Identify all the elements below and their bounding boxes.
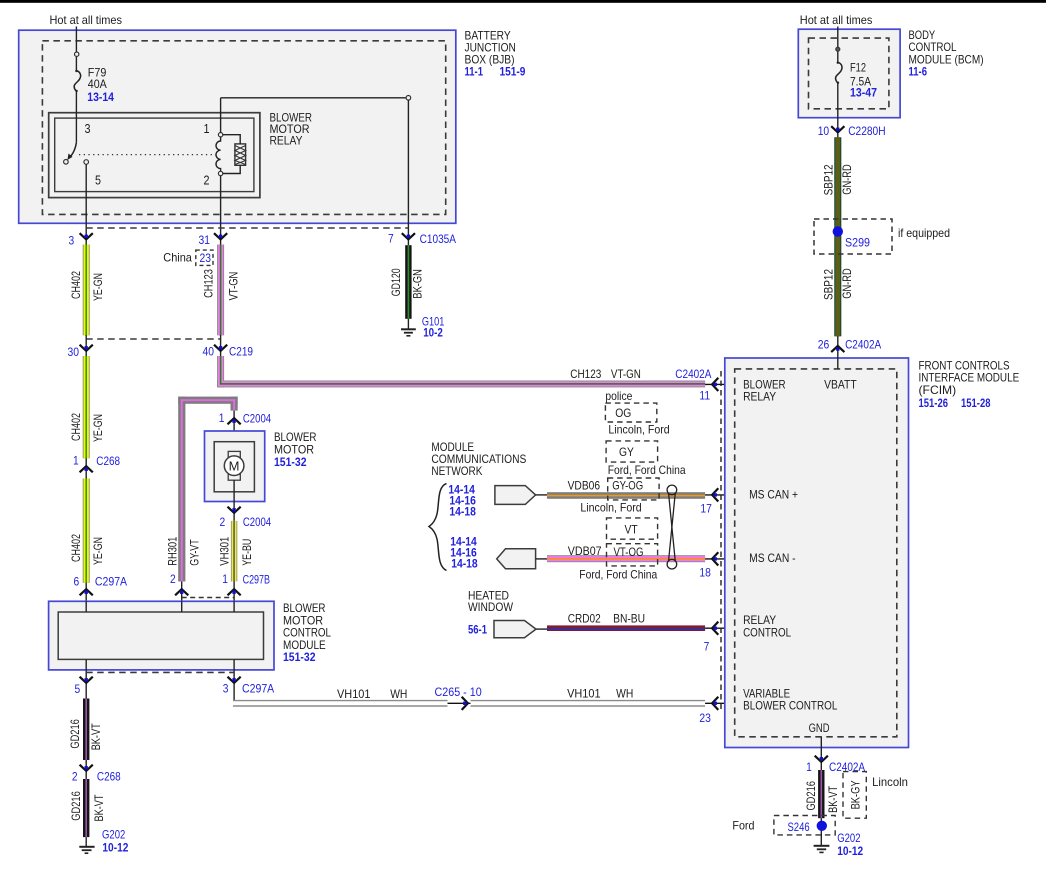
svg-text:C297A: C297A bbox=[95, 575, 127, 589]
network page refs group 1 bbox=[448, 482, 476, 518]
blower motor control module box bbox=[49, 601, 274, 670]
svg-text:SBP12: SBP12 bbox=[822, 164, 836, 195]
connector C2402A pin 26 bbox=[818, 338, 881, 353]
svg-text:C1035A: C1035A bbox=[420, 232, 456, 246]
relay inner box bbox=[55, 118, 254, 192]
connector C268 pin 2 bbox=[72, 765, 121, 784]
svg-text:Ford, Ford China: Ford, Ford China bbox=[608, 463, 686, 477]
wire through C297B pin 1 bbox=[233, 582, 235, 602]
connector C297A pin 6 bbox=[74, 575, 128, 596]
svg-text:GY: GY bbox=[619, 445, 634, 459]
wire bus down to pin 7 bbox=[407, 100, 409, 245]
svg-text:5: 5 bbox=[75, 682, 81, 696]
connector C219 pin 30 bbox=[68, 345, 93, 359]
svg-text:GD120: GD120 bbox=[389, 268, 403, 296]
svg-text:WH: WH bbox=[616, 687, 633, 701]
svg-text:C2004: C2004 bbox=[243, 412, 271, 426]
svg-text:14-18: 14-18 bbox=[449, 504, 476, 518]
fuse F79 40A bbox=[74, 70, 80, 92]
wire CH402 YE-GN segment 2 bbox=[83, 356, 90, 458]
wire stub to ground G101 bbox=[407, 319, 409, 330]
connector C297A dashed boundary (bottom) bbox=[86, 671, 234, 673]
ground G202 right bbox=[814, 846, 830, 853]
wire VDB07 VT-OG bbox=[547, 555, 705, 562]
connector C219 dashed boundary bbox=[86, 338, 220, 340]
svg-text:VH101: VH101 bbox=[337, 687, 371, 701]
wire into FCIM VBATT bbox=[837, 336, 839, 369]
wire through C268 bbox=[85, 458, 87, 478]
svg-text:MS CAN -: MS CAN - bbox=[749, 551, 796, 565]
option box VT-OG bbox=[607, 544, 658, 566]
connector C2004 pin 1 bbox=[219, 411, 272, 426]
svg-text:GD216: GD216 bbox=[804, 781, 818, 811]
wire CH402 YE-GN segment 3 bbox=[83, 479, 90, 583]
svg-text:23: 23 bbox=[200, 251, 212, 265]
svg-text:RH301: RH301 bbox=[166, 536, 180, 565]
connector C2402A dashed boundary line bbox=[720, 371, 722, 712]
wire stub to ground G202 right bbox=[820, 818, 822, 846]
connector C297A pin 5 bbox=[75, 677, 93, 696]
svg-text:C2402A: C2402A bbox=[675, 367, 711, 381]
option box BK-GY Lincoln bbox=[843, 772, 908, 819]
svg-text:BN-BU: BN-BU bbox=[613, 612, 645, 626]
option box VT bbox=[607, 518, 658, 539]
connector C268 pin 1 bbox=[73, 454, 120, 473]
splice S246 box bbox=[732, 816, 835, 835]
wire GD120 BK-GN (BJB pin 7 to G101) bbox=[405, 245, 411, 319]
connector C297B pin 1 bbox=[222, 572, 270, 595]
BCM name label bbox=[909, 28, 984, 79]
blower motor box bbox=[205, 431, 265, 502]
wire coil bottom to resistor bbox=[223, 165, 240, 173]
svg-text:CH402: CH402 bbox=[69, 534, 83, 562]
relay resistor element box bbox=[235, 144, 246, 165]
svg-text:C297B: C297B bbox=[243, 573, 270, 587]
svg-text:GY-OG: GY-OG bbox=[612, 478, 643, 492]
wire through C297B pin 2 bbox=[181, 582, 183, 602]
svg-text:MS CAN +: MS CAN + bbox=[749, 488, 798, 502]
svg-text:C265 - 10: C265 - 10 bbox=[435, 685, 482, 699]
svg-text:151-9: 151-9 bbox=[500, 65, 526, 79]
relay switch contact node bbox=[64, 160, 69, 165]
svg-text:M: M bbox=[229, 458, 240, 473]
fuse F12 7.5A bbox=[836, 62, 842, 84]
svg-text:if equipped: if equipped bbox=[898, 226, 950, 240]
svg-text:10: 10 bbox=[818, 124, 830, 138]
svg-text:151-32: 151-32 bbox=[283, 650, 316, 664]
svg-text:13-47: 13-47 bbox=[850, 86, 877, 100]
connector C2280H pin 10 bbox=[818, 124, 886, 138]
svg-text:VBATT: VBATT bbox=[824, 378, 857, 392]
svg-text:VT-GN: VT-GN bbox=[226, 272, 240, 301]
svg-text:YE-BU: YE-BU bbox=[240, 539, 254, 566]
relay resistor zigzag bbox=[235, 146, 246, 165]
svg-text:C2280H: C2280H bbox=[848, 124, 885, 138]
svg-text:C2004: C2004 bbox=[243, 515, 271, 529]
BMCM inner box bbox=[58, 612, 263, 659]
svg-text:17: 17 bbox=[700, 502, 712, 516]
wire BMCM pin 5 down bbox=[85, 659, 87, 698]
svg-text:WH: WH bbox=[390, 687, 407, 701]
svg-text:C268: C268 bbox=[96, 454, 120, 468]
heated window pentagon connector bbox=[494, 621, 548, 638]
splice S299 box bbox=[814, 219, 892, 254]
connector C2402A pin 7 bbox=[704, 622, 735, 654]
svg-text:GD216: GD216 bbox=[69, 791, 83, 821]
wire relay pin 1 up to feed bbox=[220, 98, 222, 133]
wire through C297A pin 6 bbox=[85, 583, 87, 602]
svg-text:31: 31 bbox=[199, 233, 211, 247]
svg-text:GD216: GD216 bbox=[68, 719, 82, 749]
wire BMCM pin 3 down bbox=[233, 659, 235, 700]
FCIM pin name labels bbox=[743, 378, 857, 736]
wire SBP12 GN-RD bbox=[834, 137, 841, 336]
wire RH301 GY-VT (BMCM pin 2 to motor pin 1) bbox=[178, 397, 238, 582]
connector C297A pin 3 bbox=[223, 677, 274, 696]
svg-text:2: 2 bbox=[220, 515, 226, 529]
svg-text:3: 3 bbox=[85, 122, 91, 136]
svg-text:(FCIM): (FCIM) bbox=[919, 383, 957, 397]
connector C2402A pin 17 bbox=[700, 488, 734, 515]
svg-text:5: 5 bbox=[95, 174, 101, 188]
relay pin 5 node bbox=[84, 160, 89, 165]
svg-text:1: 1 bbox=[73, 454, 79, 468]
svg-text:1: 1 bbox=[806, 760, 812, 774]
wire relay pin 5 down bbox=[85, 164, 87, 245]
svg-text:13-14: 13-14 bbox=[87, 90, 114, 104]
blower motor inner box bbox=[214, 442, 254, 492]
heated window label bbox=[468, 589, 514, 637]
svg-text:10-2: 10-2 bbox=[423, 326, 443, 340]
svg-text:NETWORK: NETWORK bbox=[431, 464, 482, 478]
svg-text:C219: C219 bbox=[229, 345, 253, 359]
svg-text:CH402: CH402 bbox=[69, 271, 83, 299]
svg-text:Ford, Ford China: Ford, Ford China bbox=[579, 567, 657, 581]
connector C2402A pin 18 bbox=[699, 552, 734, 579]
svg-text:G202: G202 bbox=[102, 828, 126, 842]
svg-text:VT-OG: VT-OG bbox=[614, 545, 644, 559]
wire VH101 WH segment 2 bbox=[471, 701, 706, 706]
BCM inner dashed boundary bbox=[809, 38, 889, 109]
wire CRD02 BN-BU bbox=[547, 625, 705, 631]
connector C2402A pin 11 bbox=[675, 367, 734, 403]
svg-text:VH101: VH101 bbox=[567, 687, 601, 701]
svg-text:BK-VT: BK-VT bbox=[826, 785, 840, 813]
svg-text:Lincoln, Ford: Lincoln, Ford bbox=[608, 422, 669, 436]
wire feed bus across BJB bbox=[221, 97, 409, 99]
wire through C219 left bbox=[85, 335, 87, 356]
connector C2004 pin 2 bbox=[220, 507, 272, 529]
svg-text:GY-VT: GY-VT bbox=[188, 539, 202, 566]
wire stub to ground G202 left bbox=[85, 837, 87, 847]
wire through C268 pin 2 bbox=[85, 760, 87, 779]
svg-text:OG: OG bbox=[615, 406, 631, 420]
wire into motor pin 1 bbox=[233, 411, 235, 452]
svg-text:F12: F12 bbox=[850, 61, 866, 75]
relay actuation dotted line bbox=[79, 154, 217, 156]
svg-text:10-12: 10-12 bbox=[837, 844, 863, 858]
wire VH101 WH segment 1 bbox=[233, 701, 448, 706]
connector BJB pin 3 bbox=[69, 233, 93, 247]
wire hot feed into BCM bbox=[837, 27, 839, 63]
svg-text:G202: G202 bbox=[837, 831, 861, 845]
connector BJB pin 31 bbox=[199, 233, 228, 247]
wire CH402 YE-GN segment 1 bbox=[83, 245, 90, 336]
svg-text:C297A: C297A bbox=[242, 682, 274, 696]
svg-text:14-18: 14-18 bbox=[451, 557, 478, 571]
wire fuse to relay switch bbox=[75, 92, 77, 143]
twisted pair symbol bbox=[667, 485, 677, 569]
wire relay pin 2 down bbox=[220, 176, 222, 245]
motor M1 symbol bbox=[224, 451, 244, 480]
BJB inner dashed boundary bbox=[42, 41, 445, 215]
svg-text:1: 1 bbox=[204, 122, 210, 136]
svg-text:151-26: 151-26 bbox=[919, 396, 949, 410]
relay coil bbox=[216, 137, 221, 171]
ground G202 left bbox=[79, 847, 94, 853]
svg-text:S246: S246 bbox=[788, 820, 810, 834]
svg-text:151-32: 151-32 bbox=[274, 455, 307, 469]
svg-text:S299: S299 bbox=[845, 236, 870, 250]
svg-text:C268: C268 bbox=[97, 770, 121, 784]
connector C297B dashed boundary bbox=[182, 597, 234, 599]
svg-text:Lincoln, Ford: Lincoln, Ford bbox=[580, 500, 641, 514]
svg-text:7: 7 bbox=[704, 640, 710, 654]
svg-text:30: 30 bbox=[68, 345, 80, 359]
svg-text:2: 2 bbox=[170, 572, 176, 586]
wire VDB06 GY-OG bbox=[547, 492, 705, 499]
svg-text:11: 11 bbox=[699, 389, 710, 403]
wire motor to C2004 pin 2 bbox=[233, 480, 235, 521]
option label China pin 23 bbox=[163, 250, 213, 265]
svg-text:40: 40 bbox=[203, 345, 215, 359]
svg-text:CONTROL: CONTROL bbox=[743, 626, 791, 640]
svg-text:11-6: 11-6 bbox=[909, 65, 928, 79]
connector C297B pin 2 bbox=[170, 572, 188, 595]
svg-text:BK-VT: BK-VT bbox=[92, 794, 106, 822]
node feed bus bbox=[406, 96, 411, 101]
wire hot feed into fuse F79 bbox=[75, 27, 77, 71]
wire fuse F12 down bbox=[837, 83, 839, 137]
svg-text:CRD02: CRD02 bbox=[568, 612, 601, 626]
svg-text:Ford: Ford bbox=[732, 819, 754, 833]
svg-text:56-1: 56-1 bbox=[468, 623, 487, 637]
svg-text:GND: GND bbox=[809, 721, 830, 735]
FCIM name label bbox=[919, 359, 1020, 411]
svg-text:YE-GN: YE-GN bbox=[91, 273, 105, 301]
svg-text:BLOWER CONTROL: BLOWER CONTROL bbox=[743, 699, 838, 713]
blower motor name label bbox=[274, 430, 317, 469]
network page refs group 2 bbox=[450, 535, 478, 571]
relay outer box bbox=[49, 113, 260, 198]
wire GD216 BK-VT (FCIM ground) bbox=[818, 770, 824, 818]
svg-text:3: 3 bbox=[69, 234, 75, 248]
top border bar bbox=[0, 0, 1046, 3]
svg-text:CH123: CH123 bbox=[202, 269, 216, 298]
connector C2402A pin 23 bbox=[699, 697, 734, 725]
connector BJB pin 7 C1035A bbox=[388, 232, 456, 247]
wire through C219 right bbox=[220, 335, 222, 356]
svg-text:YE-GN: YE-GN bbox=[91, 414, 105, 442]
svg-text:VT-GN: VT-GN bbox=[611, 367, 641, 381]
svg-text:10-12: 10-12 bbox=[102, 841, 128, 855]
svg-text:1: 1 bbox=[219, 411, 225, 425]
relay switch arm bbox=[67, 143, 76, 160]
svg-text:VT: VT bbox=[625, 523, 639, 537]
svg-text:26: 26 bbox=[818, 338, 830, 352]
svg-text:VDB07: VDB07 bbox=[568, 544, 602, 558]
wire CH123 VT-GN segment 2 (corner to FCIM) bbox=[217, 356, 705, 387]
svg-text:BK-VT: BK-VT bbox=[89, 723, 103, 751]
wire CH123 VT-GN segment 1 bbox=[217, 245, 224, 336]
svg-text:Lincoln: Lincoln bbox=[872, 775, 908, 789]
BCM box bbox=[798, 29, 900, 118]
option box GY bbox=[606, 441, 658, 462]
svg-text:YE-GN: YE-GN bbox=[91, 537, 105, 565]
network connector pentagon MS CAN + bbox=[495, 486, 548, 505]
svg-text:1: 1 bbox=[222, 572, 228, 586]
wire GD216 BK-VT segment 1 bbox=[83, 699, 89, 761]
option box OG bbox=[605, 403, 656, 422]
module communications network label bbox=[431, 440, 526, 478]
svg-text:18: 18 bbox=[699, 566, 711, 580]
svg-text:11-1: 11-1 bbox=[465, 65, 484, 79]
svg-text:BK-GN: BK-GN bbox=[411, 269, 425, 298]
svg-text:RELAY: RELAY bbox=[270, 134, 303, 148]
svg-text:23: 23 bbox=[699, 711, 711, 725]
svg-text:police: police bbox=[605, 389, 632, 403]
svg-text:CH402: CH402 bbox=[69, 413, 83, 441]
connector C265 pin 10 inline bbox=[435, 685, 482, 710]
svg-text:CH123: CH123 bbox=[570, 367, 601, 381]
connector boundary dashed line below BJB bbox=[86, 227, 408, 229]
wire GD216 BK-VT segment 2 bbox=[83, 779, 89, 837]
svg-text:China: China bbox=[163, 251, 192, 265]
svg-text:C2402A: C2402A bbox=[845, 338, 881, 352]
ground G101 bbox=[401, 329, 416, 336]
BJB name label bbox=[465, 29, 526, 79]
svg-text:BK-GY: BK-GY bbox=[849, 780, 863, 809]
FCIM inner dashed boundary bbox=[735, 369, 897, 737]
relay coil node top bbox=[218, 133, 222, 137]
network connector pentagon MS CAN - bbox=[497, 549, 548, 569]
svg-text:Hot at all times: Hot at all times bbox=[50, 13, 123, 27]
wire stubs inside BMCM bbox=[86, 601, 234, 612]
FCIM box bbox=[725, 358, 909, 748]
wire VH301 YE-BU bbox=[231, 521, 237, 582]
option box GY-OG bbox=[608, 478, 659, 500]
node on BCM feed bbox=[836, 47, 840, 51]
svg-text:Hot at all times: Hot at all times bbox=[800, 13, 873, 27]
svg-text:RELAY: RELAY bbox=[743, 390, 776, 404]
svg-text:3: 3 bbox=[223, 682, 229, 696]
svg-text:7: 7 bbox=[388, 232, 394, 246]
wire FCIM GND down bbox=[820, 737, 822, 770]
relay name label bbox=[270, 111, 313, 148]
svg-text:VDB06: VDB06 bbox=[568, 478, 601, 492]
connector C2402A pin 1 (GND) bbox=[806, 756, 865, 774]
svg-text:GN-RD: GN-RD bbox=[840, 164, 854, 195]
svg-text:6: 6 bbox=[74, 575, 80, 589]
svg-text:SBP12: SBP12 bbox=[822, 269, 836, 300]
BMCM name label bbox=[283, 601, 331, 664]
svg-text:151-28: 151-28 bbox=[961, 396, 991, 410]
connector C219 pin 40 bbox=[203, 345, 254, 359]
relay coil node bottom bbox=[218, 171, 222, 175]
wire coil top to resistor bbox=[223, 135, 240, 144]
network brace bbox=[429, 484, 447, 571]
node on hot feed bbox=[75, 52, 79, 56]
svg-text:VH301: VH301 bbox=[218, 536, 232, 565]
svg-text:WINDOW: WINDOW bbox=[468, 600, 514, 614]
battery junction box BJB outline bbox=[19, 30, 456, 223]
svg-text:2: 2 bbox=[72, 770, 78, 784]
svg-text:GN-RD: GN-RD bbox=[840, 268, 854, 299]
svg-text:2: 2 bbox=[204, 174, 210, 188]
